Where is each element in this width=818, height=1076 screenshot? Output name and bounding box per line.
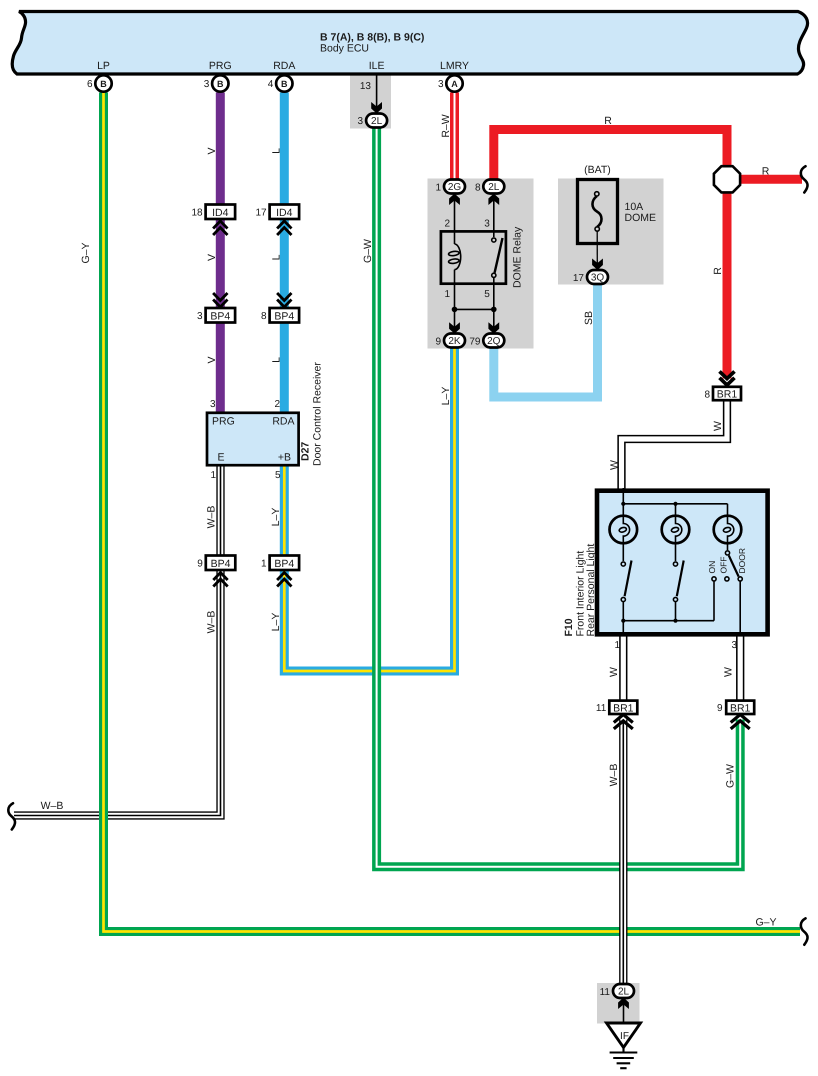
svg-text:G–W: G–W (725, 764, 737, 788)
svg-text:Body ECU: Body ECU (320, 43, 369, 55)
svg-text:OFF: OFF (719, 557, 729, 574)
svg-text:L: L (271, 357, 283, 363)
svg-text:5: 5 (484, 289, 490, 300)
svg-text:5: 5 (275, 470, 281, 481)
svg-text:79: 79 (469, 337, 481, 348)
svg-text:W–B: W–B (608, 764, 620, 787)
svg-text:8: 8 (475, 183, 481, 194)
svg-text:(BAT): (BAT) (584, 164, 611, 176)
svg-text:3: 3 (484, 219, 490, 230)
svg-text:2L: 2L (488, 182, 500, 193)
svg-text:V: V (206, 356, 218, 363)
svg-text:3: 3 (438, 79, 444, 90)
svg-text:R: R (604, 115, 612, 127)
svg-text:3: 3 (731, 640, 737, 651)
svg-text:V: V (206, 147, 218, 154)
svg-text:2: 2 (444, 219, 450, 230)
svg-text:17: 17 (573, 273, 585, 284)
svg-text:ON: ON (707, 561, 717, 574)
svg-text:3Q: 3Q (591, 273, 605, 284)
svg-text:A: A (451, 79, 458, 89)
svg-text:IF: IF (620, 1031, 629, 1042)
svg-text:BR1: BR1 (613, 702, 634, 714)
svg-text:8: 8 (704, 389, 710, 400)
svg-text:ID4: ID4 (212, 207, 229, 219)
svg-text:2L: 2L (371, 116, 383, 127)
svg-text:RDA: RDA (272, 416, 294, 428)
svg-text:V: V (206, 254, 218, 261)
svg-text:L–Y: L–Y (270, 508, 282, 527)
svg-text:DOOR: DOOR (737, 548, 747, 574)
svg-text:DOME: DOME (625, 212, 657, 224)
svg-text:W–B: W–B (206, 611, 218, 634)
svg-text:LMRY: LMRY (440, 60, 469, 72)
svg-text:BP4: BP4 (210, 310, 230, 322)
svg-text:ILE: ILE (369, 60, 385, 72)
svg-text:W: W (712, 421, 724, 431)
svg-text:3: 3 (357, 116, 363, 127)
svg-text:BP4: BP4 (211, 558, 231, 570)
svg-text:9: 9 (197, 559, 203, 570)
svg-text:D27: D27 (300, 442, 312, 461)
svg-text:L: L (271, 148, 283, 154)
svg-text:8: 8 (261, 311, 267, 322)
svg-text:R–W: R–W (440, 114, 452, 137)
svg-text:BR1: BR1 (717, 389, 738, 401)
svg-text:B: B (217, 79, 224, 89)
svg-text:2Q: 2Q (487, 336, 501, 347)
svg-text:BR1: BR1 (730, 702, 751, 714)
svg-text:B: B (100, 79, 107, 89)
svg-text:L: L (271, 254, 283, 260)
svg-text:W: W (608, 667, 620, 677)
svg-text:Rear Personal Light: Rear Personal Light (585, 544, 597, 637)
svg-text:Door Control Receiver: Door Control Receiver (312, 362, 324, 466)
svg-text:1: 1 (614, 640, 620, 651)
svg-text:B: B (281, 79, 288, 89)
svg-text:G–W: G–W (362, 239, 374, 263)
svg-text:18: 18 (191, 208, 203, 219)
svg-text:G–Y: G–Y (755, 917, 776, 929)
svg-text:PRG: PRG (212, 416, 235, 428)
svg-text:LP: LP (97, 60, 110, 72)
svg-text:1: 1 (435, 183, 441, 194)
svg-text:1: 1 (261, 559, 267, 570)
svg-text:DOME Relay: DOME Relay (512, 226, 524, 288)
svg-text:PRG: PRG (209, 60, 232, 72)
svg-text:2: 2 (274, 399, 280, 410)
svg-text:2L: 2L (618, 987, 630, 998)
svg-text:R: R (712, 267, 724, 275)
svg-text:9: 9 (435, 337, 441, 348)
svg-text:W–B: W–B (206, 506, 218, 529)
svg-text:1: 1 (210, 470, 216, 481)
svg-text:W–B: W–B (41, 800, 64, 812)
svg-text:L–Y: L–Y (440, 387, 452, 406)
svg-text:ID4: ID4 (276, 207, 293, 219)
svg-text:17: 17 (255, 208, 267, 219)
svg-text:2K: 2K (448, 336, 461, 347)
svg-text:BP4: BP4 (274, 310, 294, 322)
svg-text:3: 3 (197, 311, 203, 322)
svg-text:4: 4 (268, 79, 274, 90)
svg-text:BP4: BP4 (274, 558, 294, 570)
svg-text:9: 9 (717, 703, 723, 714)
svg-text:3: 3 (204, 79, 210, 90)
svg-text:6: 6 (87, 79, 93, 90)
svg-text:1: 1 (444, 289, 450, 300)
svg-text:R: R (762, 166, 770, 178)
svg-text:SB: SB (583, 311, 595, 325)
svg-text:W: W (723, 667, 735, 677)
svg-text:F10: F10 (563, 618, 575, 636)
svg-text:L–Y: L–Y (270, 613, 282, 632)
svg-text:E: E (218, 452, 225, 464)
svg-text:+B: +B (278, 452, 291, 464)
svg-text:G–Y: G–Y (80, 242, 92, 263)
svg-text:11: 11 (596, 703, 607, 714)
svg-text:W: W (609, 460, 621, 470)
svg-text:3: 3 (210, 399, 216, 410)
svg-text:2G: 2G (448, 182, 462, 193)
svg-text:13: 13 (360, 81, 372, 92)
svg-text:11: 11 (600, 987, 611, 998)
svg-text:RDA: RDA (273, 60, 295, 72)
